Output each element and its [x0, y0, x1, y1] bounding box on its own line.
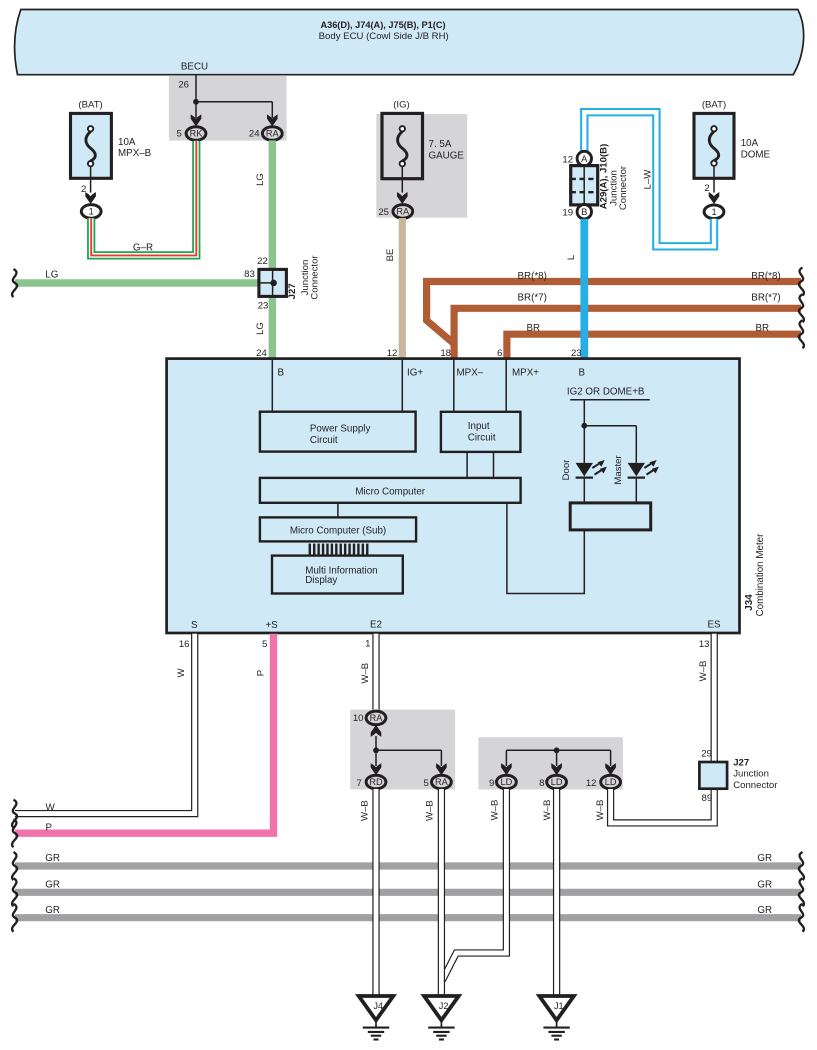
- LED Master: [628, 463, 645, 477]
- svg-text:LG: LG: [255, 173, 266, 186]
- break symbol LG left: [12, 269, 17, 297]
- terminal arrow into RA 5: [440, 750, 442, 766]
- svg-text:W–B: W–B: [489, 800, 500, 821]
- svg-text:Master: Master: [613, 455, 624, 485]
- break symbol GR left: [12, 904, 17, 932]
- wire W-B from RD 7 to ground J4: [372, 789, 379, 996]
- svg-text:12: 12: [562, 154, 573, 165]
- svg-text:J1: J1: [554, 1001, 564, 1011]
- Body ECU banner (Cowl Side J/B RH): [14, 10, 803, 75]
- terminal arrow into LD 8: [556, 750, 558, 766]
- break symbol GR left: [12, 878, 17, 906]
- svg-text:Connector: Connector: [310, 255, 321, 300]
- multi information display block: [272, 556, 403, 594]
- svg-text:8: 8: [539, 778, 544, 789]
- wire fuse GAUGE down: [401, 166, 403, 192]
- wire P from pin +S to left: [15, 634, 274, 833]
- svg-text:A36(D), J74(A), J75(B), P1(C): A36(D), J74(A), J75(B), P1(C): [320, 20, 445, 30]
- wire BECU vertical from banner: [195, 76, 197, 119]
- svg-text:DOME: DOME: [741, 150, 771, 161]
- svg-text:Circuit: Circuit: [468, 432, 496, 443]
- svg-text:Combination Meter: Combination Meter: [755, 533, 766, 617]
- svg-text:BR(*7): BR(*7): [751, 293, 780, 304]
- terminal arrow into connector 1 DOME: [709, 192, 720, 204]
- svg-text:MPX+: MPX+: [512, 367, 539, 378]
- svg-text:W: W: [46, 802, 56, 813]
- svg-text:E2: E2: [370, 619, 382, 630]
- svg-text:Circuit: Circuit: [310, 435, 338, 446]
- svg-text:25: 25: [378, 207, 389, 218]
- svg-text:GR: GR: [757, 879, 772, 890]
- svg-text:RA: RA: [396, 207, 410, 217]
- svg-text:LG: LG: [255, 322, 266, 335]
- svg-text:Input: Input: [468, 421, 490, 432]
- svg-text:1: 1: [711, 207, 716, 217]
- svg-text:Display: Display: [305, 575, 337, 586]
- wire pin IG+ to power supply circuit: [401, 360, 403, 412]
- svg-text:P: P: [255, 670, 266, 676]
- svg-text:BECU: BECU: [181, 62, 208, 73]
- svg-text:B: B: [278, 367, 285, 378]
- svg-text:(BAT): (BAT): [78, 100, 102, 111]
- ground J4: [359, 996, 394, 1020]
- svg-text:P: P: [46, 823, 53, 834]
- micro computer block: [260, 478, 521, 503]
- svg-text:5: 5: [176, 129, 181, 140]
- svg-text:LD: LD: [551, 777, 563, 787]
- break symbol GR right: [799, 904, 804, 932]
- pin 9 terminal LD: [497, 775, 517, 789]
- junction connector J27 upper: [259, 269, 287, 296]
- svg-text:W–B: W–B: [542, 800, 553, 821]
- svg-text:Micro Computer (Sub): Micro Computer (Sub): [290, 525, 386, 536]
- svg-text:RA: RA: [435, 777, 449, 787]
- svg-text:1: 1: [89, 207, 94, 217]
- svg-text:LG: LG: [45, 270, 58, 281]
- wire GR lower: [15, 914, 801, 921]
- wire junction below RA 10: [375, 736, 377, 750]
- svg-text:W–B: W–B: [425, 800, 436, 821]
- svg-text:23: 23: [571, 348, 582, 359]
- svg-text:IG+: IG+: [407, 367, 423, 378]
- connector 1 (DOME): [704, 205, 724, 219]
- wire fuse MPX-B pin 2: [90, 166, 92, 192]
- svg-text:W–B: W–B: [698, 661, 709, 682]
- svg-text:Body ECU (Cowl Side J/B RH): Body ECU (Cowl Side J/B RH): [319, 31, 449, 42]
- svg-text:(IG): (IG): [393, 100, 410, 111]
- terminal arrow into RK: [191, 114, 202, 126]
- svg-text:Junction: Junction: [733, 769, 769, 780]
- break symbol BR right: [799, 320, 804, 348]
- pin 7 terminal RD: [366, 775, 386, 789]
- wire L from terminal B to meter pin 23: [580, 219, 588, 360]
- svg-text:89: 89: [702, 793, 713, 804]
- terminal arrow into RD 7: [375, 750, 377, 766]
- svg-text:A: A: [581, 153, 588, 164]
- combination meter J34 box: [167, 359, 740, 633]
- wire W-B from pin E2 down: [372, 634, 379, 711]
- break symbol GR right: [799, 878, 804, 906]
- wire GR middle: [15, 889, 801, 896]
- svg-text:10A: 10A: [118, 137, 136, 148]
- wire GR upper: [15, 862, 801, 869]
- svg-text:Door: Door: [561, 459, 572, 481]
- svg-text:LD: LD: [605, 777, 617, 787]
- svg-text:7: 7: [356, 778, 361, 789]
- svg-text:9: 9: [489, 778, 494, 789]
- connector block shading LD: [478, 737, 623, 789]
- svg-text:26: 26: [178, 80, 189, 91]
- svg-text:16: 16: [179, 639, 190, 650]
- svg-text:L: L: [566, 254, 577, 260]
- ground J2: [424, 996, 459, 1020]
- svg-text:J2: J2: [439, 1001, 449, 1011]
- svg-text:GR: GR: [757, 905, 772, 916]
- svg-text:J4: J4: [373, 1001, 383, 1011]
- svg-text:(BAT): (BAT): [702, 100, 726, 111]
- svg-text:B: B: [579, 367, 586, 378]
- svg-text:ES: ES: [707, 619, 721, 630]
- wire LG vertical from RA pin 24 to meter pin 24: [269, 140, 276, 359]
- wire LED driver to micro computer: [507, 503, 584, 594]
- break symbol BR(*7) right: [799, 294, 804, 322]
- svg-text:J34: J34: [744, 594, 755, 611]
- svg-text:GR: GR: [45, 879, 60, 890]
- svg-text:29: 29: [701, 749, 712, 760]
- wire pin B to power supply circuit: [271, 360, 273, 412]
- wires LEDs to driver block: [583, 479, 585, 503]
- svg-text:7. 5A: 7. 5A: [429, 139, 452, 150]
- wire W-B from RA 5 to ground J2: [438, 789, 445, 996]
- break symbol GR right: [799, 852, 804, 880]
- terminal arrow up into RA 10: [371, 725, 382, 737]
- wire W-B from pin ES through J27 to LD 12: [611, 634, 715, 823]
- input circuit block: [441, 412, 521, 452]
- svg-text:G–R: G–R: [133, 243, 153, 254]
- svg-text:BE: BE: [385, 249, 396, 262]
- wire fuse DOME pin 2: [713, 166, 715, 193]
- svg-text:L–W: L–W: [643, 169, 654, 190]
- pin 5 terminal RK: [186, 127, 206, 141]
- pin 12 terminal LD: [601, 775, 621, 789]
- svg-text:Connector: Connector: [618, 165, 629, 210]
- svg-text:10: 10: [353, 713, 364, 724]
- svg-text:19: 19: [562, 208, 573, 219]
- svg-text:1: 1: [365, 638, 370, 649]
- display connector ribbon: [310, 544, 367, 555]
- pin 25 terminal RA: [393, 205, 413, 219]
- svg-text:W–B: W–B: [595, 800, 606, 821]
- wire BE from RA 25 to meter pin 12: [399, 218, 406, 360]
- svg-text:GR: GR: [757, 853, 772, 864]
- svg-text:GR: GR: [45, 905, 60, 916]
- micro computer (sub) block: [260, 517, 416, 541]
- svg-text:BR(*7): BR(*7): [518, 293, 547, 304]
- junction dot IG2 bus: [581, 423, 587, 429]
- svg-text:W–B: W–B: [359, 800, 370, 821]
- svg-text:BR: BR: [527, 323, 541, 334]
- svg-text:B: B: [581, 206, 587, 217]
- wire W-B from LD 8 to ground J1: [553, 789, 560, 996]
- svg-text:GR: GR: [45, 853, 60, 864]
- wire branch to Master LED: [584, 425, 636, 427]
- junction dot LD bus: [554, 747, 560, 753]
- wire IG2 bus down to Door LED: [583, 400, 585, 463]
- svg-text:23: 23: [258, 300, 269, 311]
- svg-text:+S: +S: [265, 620, 278, 631]
- svg-text:BR(*8): BR(*8): [751, 271, 780, 282]
- LED driver block: [570, 503, 651, 530]
- svg-text:83: 83: [244, 269, 255, 280]
- svg-text:W–B: W–B: [360, 663, 371, 684]
- wire W-B from LD 9 merging into J2: [442, 789, 506, 980]
- svg-text:5: 5: [423, 778, 428, 789]
- svg-text:24: 24: [256, 348, 267, 359]
- terminal arrow into connector 1: [85, 192, 96, 204]
- wire LD bus: [506, 749, 610, 751]
- break symbol BR(*8) right: [799, 268, 804, 296]
- svg-text:J27: J27: [733, 757, 749, 768]
- svg-text:22: 22: [257, 256, 268, 267]
- LED Door: [576, 463, 593, 477]
- svg-text:MPX–: MPX–: [457, 367, 484, 378]
- pin 10 terminal RA: [366, 711, 386, 725]
- wire BR(*7) to meter pin 18: [454, 308, 801, 359]
- wire BR to meter pin 6: [507, 334, 801, 359]
- svg-text:24: 24: [249, 129, 260, 140]
- svg-text:IG2 OR DOME+B: IG2 OR DOME+B: [567, 386, 645, 397]
- connector block shading RA RD: [350, 710, 455, 790]
- terminal arrow into RA 25: [397, 192, 408, 204]
- terminal arrow into LD 9: [505, 750, 507, 766]
- terminal arrow into RA: [267, 114, 278, 126]
- svg-text:5: 5: [262, 639, 267, 650]
- wire branch to RA 5: [376, 749, 441, 751]
- connector 1 (MPX-B): [81, 205, 101, 219]
- wire BR(*8) to meter pin 18: [427, 282, 801, 344]
- wire pin MPX- to input circuit: [453, 360, 455, 412]
- terminal arrow into LD 12: [610, 750, 612, 766]
- break symbol P left: [12, 819, 17, 847]
- junction dot on BECU wire: [193, 99, 199, 105]
- svg-text:12: 12: [586, 778, 597, 789]
- wires input circuit to micro computer: [466, 452, 468, 478]
- pin 5 terminal RA lower: [432, 775, 452, 789]
- wire micro computer to sub: [337, 503, 339, 518]
- svg-text:RA: RA: [266, 129, 280, 139]
- wire pin MPX+ to input circuit: [505, 360, 507, 412]
- svg-text:Power Supply: Power Supply: [310, 424, 371, 435]
- wire W from pin S to left: [15, 634, 195, 814]
- connector block shading for gauge fuse: [376, 114, 467, 218]
- junction connector J27 lower: [699, 762, 727, 789]
- svg-text:J27: J27: [287, 283, 298, 299]
- svg-text:13: 13: [699, 639, 710, 650]
- svg-text:12: 12: [387, 348, 398, 359]
- svg-text:W: W: [176, 668, 187, 678]
- svg-text:Micro Computer: Micro Computer: [355, 486, 425, 497]
- svg-text:MPX–B: MPX–B: [118, 148, 152, 159]
- svg-text:Connector: Connector: [733, 780, 778, 791]
- break symbol GR left: [12, 852, 17, 880]
- svg-text:GAUGE: GAUGE: [429, 151, 465, 162]
- svg-text:RA: RA: [370, 713, 384, 723]
- junction connector A29(A) J10(B): [571, 166, 598, 205]
- connector block shading for pins 5 and 24: [169, 76, 287, 141]
- pin 24 terminal RA: [262, 127, 282, 141]
- svg-text:LD: LD: [501, 777, 513, 787]
- break symbol W left: [12, 800, 17, 828]
- svg-text:S: S: [191, 620, 198, 631]
- wire L-W from connector 1 DOME to junction A: [584, 112, 714, 246]
- svg-text:RD: RD: [369, 777, 383, 787]
- pin 8 terminal LD: [547, 775, 567, 789]
- power supply circuit block: [260, 412, 416, 452]
- wire G-R from connector 1 to pin 5 RK: [91, 141, 196, 256]
- svg-text:10A: 10A: [741, 138, 759, 149]
- svg-text:BR: BR: [756, 323, 770, 334]
- wire branch to pin 24: [196, 101, 272, 103]
- ground J1: [539, 996, 574, 1020]
- wire LG horizontal from left: [15, 279, 259, 286]
- svg-text:RK: RK: [190, 129, 204, 139]
- svg-text:BR(*8): BR(*8): [518, 271, 547, 282]
